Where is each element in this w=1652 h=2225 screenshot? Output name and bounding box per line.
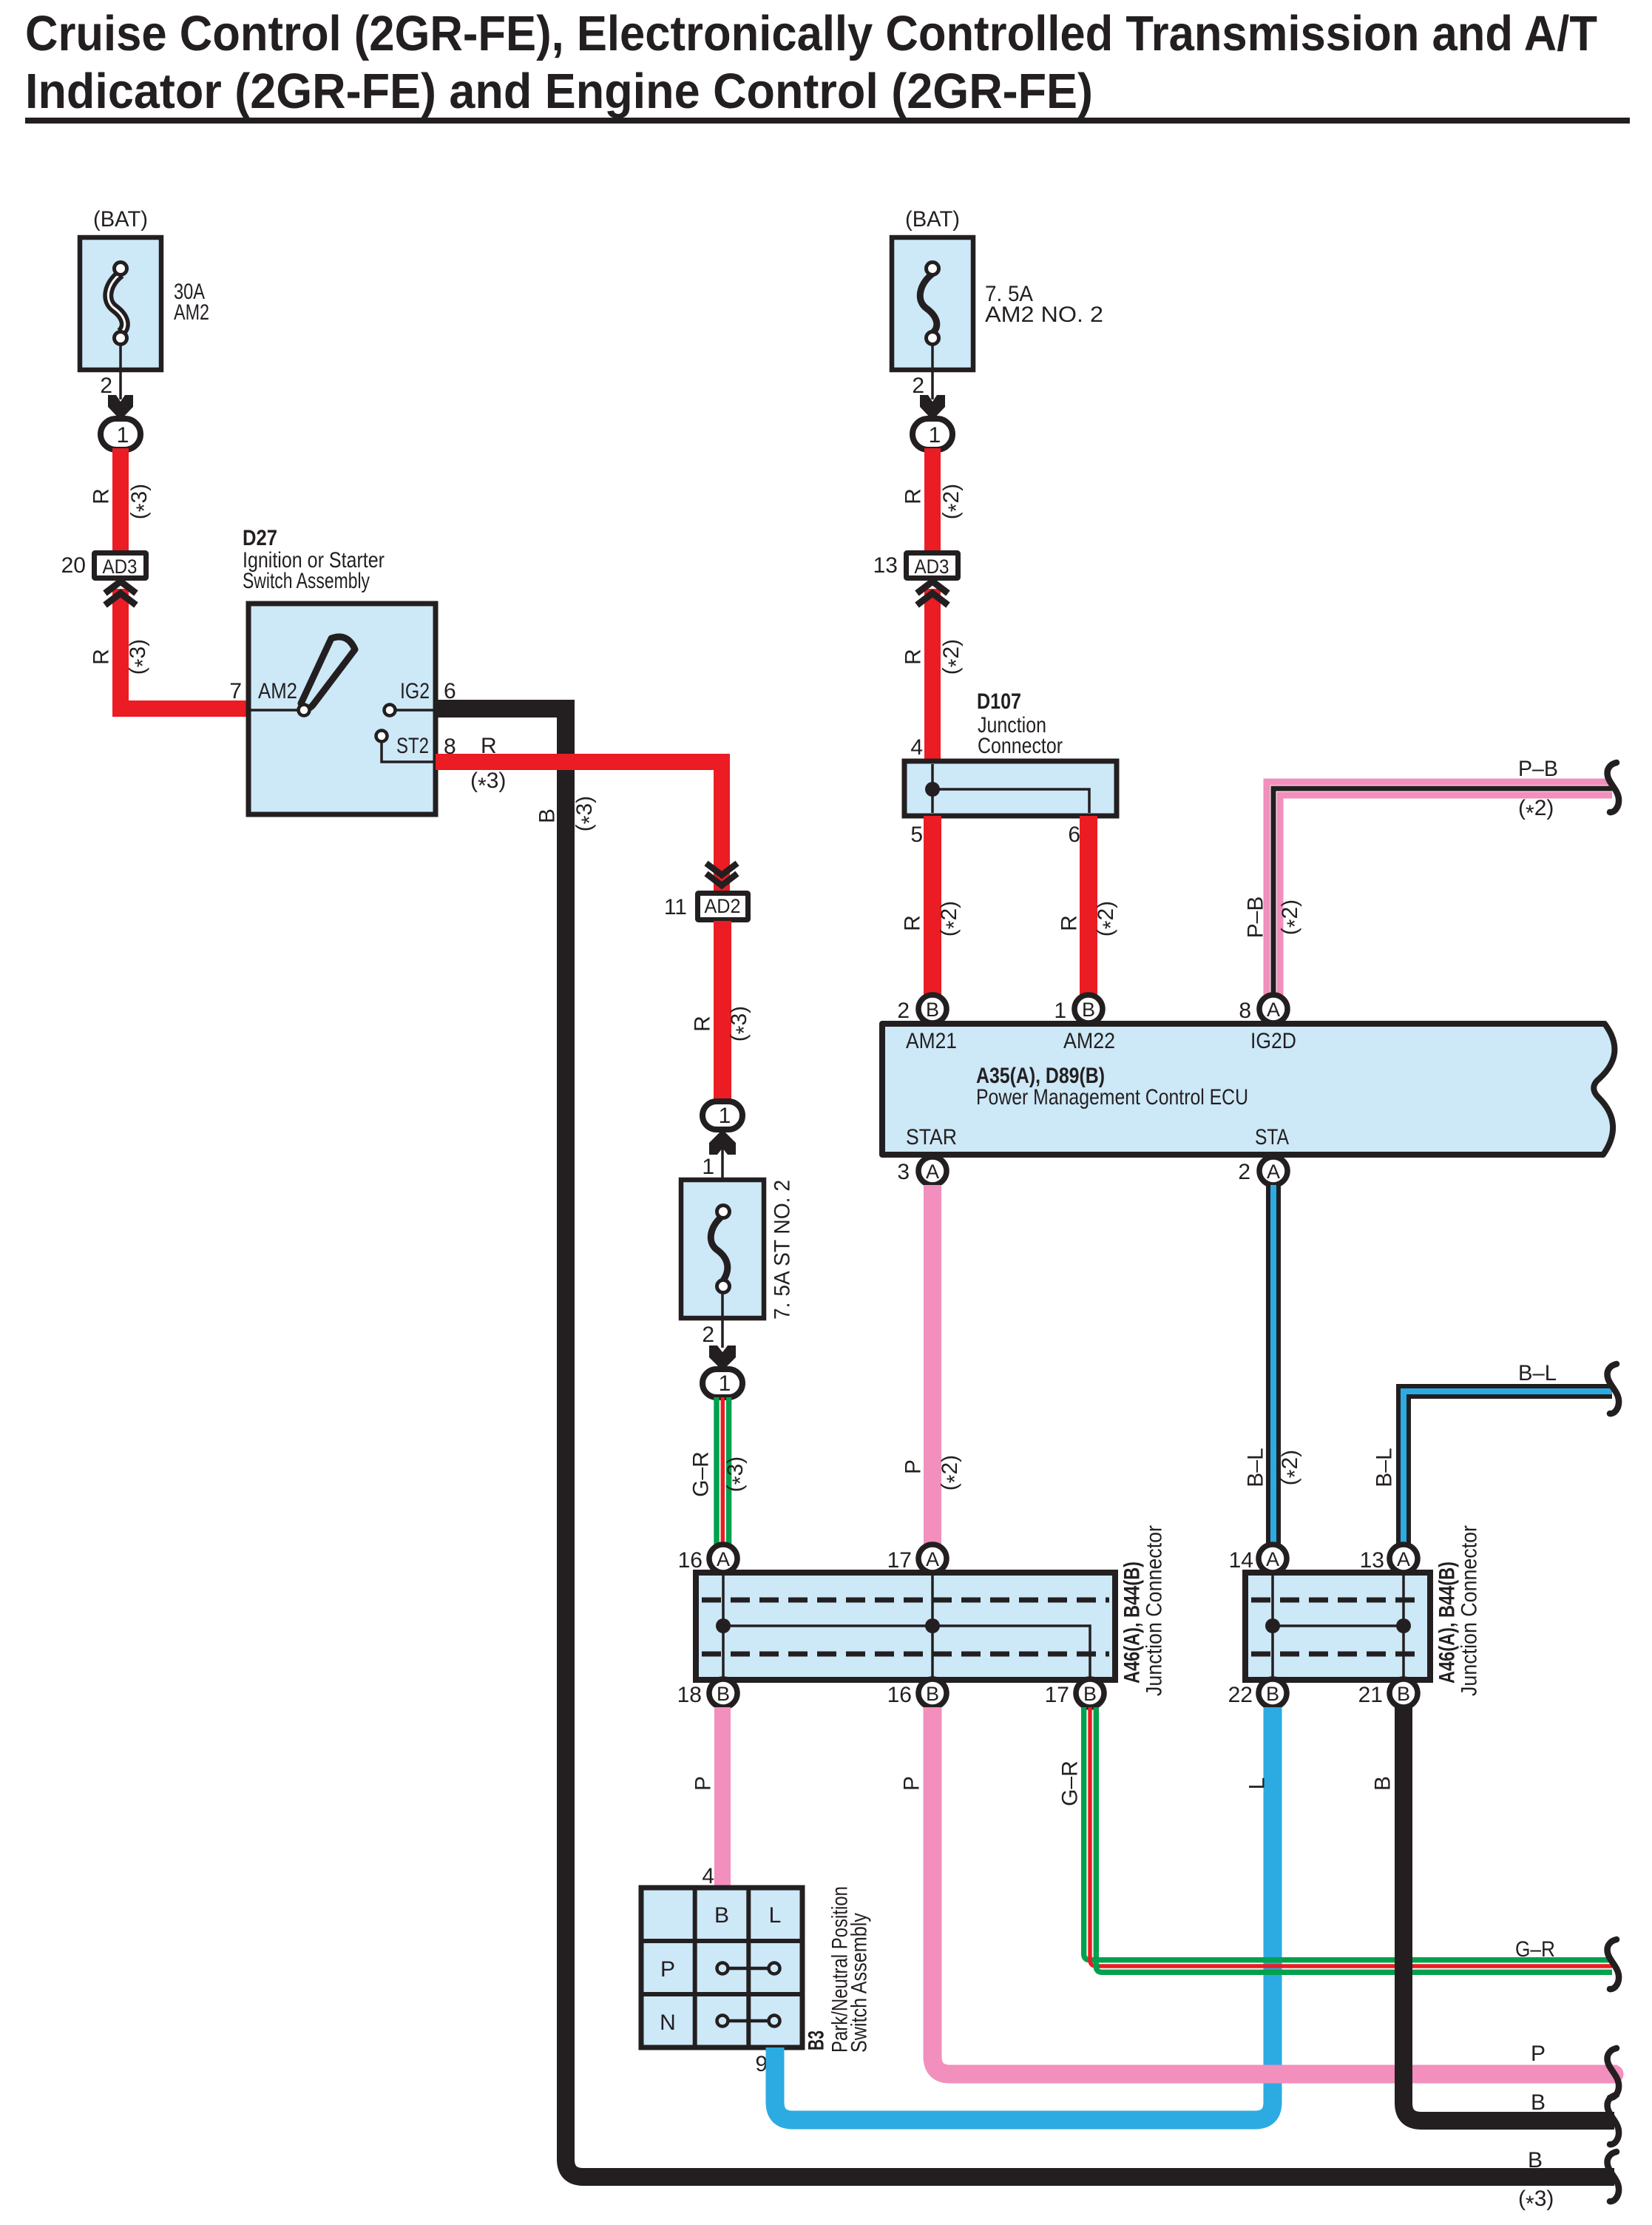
svg-text:7. 5A ST NO. 2: 7. 5A ST NO. 2 [771, 1180, 795, 1320]
double chevron below AD3 (left) [105, 581, 136, 605]
svg-text:(*2): (*2) [1278, 899, 1307, 935]
svg-text:17: 17 [887, 1548, 912, 1573]
connector oval 1 (left) [101, 419, 141, 450]
arrow up into oval [709, 1130, 736, 1155]
svg-text:D107: D107 [977, 689, 1021, 714]
svg-text:B: B [714, 1903, 729, 1928]
fuse 7.5A ST NO.2 [681, 1180, 764, 1318]
svg-text:2: 2 [702, 1323, 714, 1347]
svg-text:A: A [1397, 1548, 1410, 1570]
svg-text:(*3): (*3) [127, 484, 157, 519]
svg-text:AM22: AM22 [1063, 1029, 1115, 1053]
svg-text:18: 18 [677, 1683, 702, 1707]
svg-text:STAR: STAR [906, 1125, 957, 1149]
svg-text:G–R: G–R [1058, 1760, 1083, 1806]
svg-text:14: 14 [1229, 1548, 1253, 1573]
svg-text:G–R: G–R [1515, 1937, 1555, 1962]
wire lead into fuse ST NO.2 [721, 1143, 724, 1207]
pin 2 A circle (STA) [1238, 1157, 1287, 1185]
connector AD3 (left) [95, 553, 146, 578]
svg-text:B–L: B–L [1518, 1361, 1557, 1385]
pin 16 B circle [887, 1679, 947, 1707]
ECU A35(A) D89(B) Power Management Control ECU [882, 1024, 1614, 1155]
continuation brace B (bottom) [1608, 2152, 1619, 2201]
svg-text:(*3): (*3) [727, 1006, 756, 1041]
svg-text:L: L [769, 1903, 782, 1928]
svg-text:R: R [901, 649, 926, 665]
wire R (*2) AD3 to D107 pin 4 [924, 589, 941, 761]
svg-text:2: 2 [1238, 1160, 1250, 1184]
svg-text:22: 22 [1228, 1683, 1253, 1707]
pin 8 A circle (IG2D) [1239, 995, 1287, 1023]
svg-text:5: 5 [910, 823, 923, 847]
svg-text:A46(A), B44(B): A46(A), B44(B) [1435, 1561, 1460, 1684]
connector oval 1 (mid) [703, 1101, 742, 1130]
svg-text:B3: B3 [805, 2030, 829, 2050]
svg-text:B: B [1397, 1683, 1410, 1705]
wire B (*3) from IG2 to bottom right [436, 709, 1614, 2177]
pin 17 A circle [887, 1544, 947, 1573]
svg-text:R: R [901, 488, 926, 504]
svg-text:16: 16 [678, 1548, 703, 1573]
continuation brace B (21B) [1608, 2095, 1619, 2144]
wire R (*2) fuse F2 to AD3 [924, 448, 941, 552]
svg-text:A: A [926, 1161, 939, 1183]
pin 16 A circle [678, 1544, 737, 1573]
pin 21 B circle [1358, 1679, 1418, 1707]
svg-text:(*3): (*3) [470, 769, 506, 798]
svg-text:1: 1 [719, 1104, 731, 1128]
svg-text:(*2): (*2) [939, 639, 969, 675]
wire G-R (*3) oval to junction 16A [717, 1397, 729, 1546]
wire fuse F1 pin 2 lead [119, 344, 122, 399]
svg-text:(*2): (*2) [1278, 1450, 1307, 1485]
wire B-L junction 13A to right edge [1404, 1391, 1612, 1546]
svg-text:Junction Connector: Junction Connector [1142, 1525, 1167, 1696]
svg-text:1: 1 [719, 1371, 731, 1396]
svg-text:P–B: P–B [1244, 897, 1268, 939]
svg-text:B–L: B–L [1372, 1448, 1397, 1487]
svg-text:(BAT): (BAT) [905, 207, 960, 232]
connector AD2 [698, 894, 748, 920]
svg-text:B: B [535, 808, 560, 823]
svg-text:(*2): (*2) [939, 484, 969, 519]
svg-text:R: R [1057, 915, 1082, 931]
wire R (*3) AD3 to D27 AM2 [121, 589, 248, 709]
svg-text:A46(A), B44(B): A46(A), B44(B) [1120, 1561, 1145, 1684]
svg-text:A: A [1267, 999, 1280, 1021]
svg-text:Power Management Control ECU: Power Management Control ECU [976, 1085, 1248, 1110]
svg-text:R: R [901, 915, 925, 931]
arrow into connector 1 [108, 395, 133, 420]
svg-text:B: B [926, 999, 939, 1021]
svg-text:21: 21 [1358, 1683, 1383, 1707]
svg-text:(*2): (*2) [938, 1455, 967, 1490]
wire P junction 16B to right edge [932, 1707, 1617, 2074]
svg-text:B: B [1371, 1776, 1395, 1791]
wire G-R junction 17B to right edge [1084, 1707, 1612, 1972]
title underline [25, 118, 1630, 124]
svg-text:P–B: P–B [1518, 757, 1558, 781]
svg-text:A: A [717, 1548, 730, 1570]
svg-text:3: 3 [897, 1160, 910, 1184]
svg-text:P: P [901, 1459, 926, 1474]
wire fuse F2 pin 2 lead [931, 344, 934, 399]
svg-text:P: P [691, 1776, 716, 1791]
svg-text:B: B [1266, 1683, 1279, 1705]
svg-text:(*3): (*3) [572, 796, 602, 831]
svg-text:1: 1 [929, 423, 941, 448]
svg-text:AM2 NO. 2: AM2 NO. 2 [985, 303, 1103, 327]
svg-text:AD3: AD3 [103, 556, 138, 578]
svg-text:IG2D: IG2D [1250, 1029, 1296, 1053]
park/neutral position switch B3 [641, 1888, 802, 2047]
svg-text:11: 11 [664, 895, 687, 919]
svg-text:AM2: AM2 [174, 300, 209, 325]
svg-text:1: 1 [1054, 999, 1066, 1023]
fuse F1 30A AM2 [80, 237, 161, 370]
wire R (*2) D107 pin6 to ECU AM22 [1080, 816, 1097, 995]
svg-text:B: B [926, 1683, 939, 1705]
svg-text:D27: D27 [243, 526, 277, 550]
wire R (*3) AD2 to connector oval [714, 921, 731, 1102]
svg-text:IG2: IG2 [400, 679, 430, 703]
svg-text:A: A [926, 1548, 939, 1570]
svg-text:13: 13 [873, 553, 898, 578]
svg-text:Switch Assembly: Switch Assembly [243, 569, 370, 593]
wire P (*2) STAR to junction 17A [924, 1185, 941, 1546]
arrow into connector oval 2 [709, 1346, 736, 1371]
svg-text:4: 4 [910, 735, 923, 760]
svg-text:(*3): (*3) [126, 639, 155, 675]
wire lead below fuse ST NO.2 [721, 1292, 724, 1348]
svg-text:B–L: B–L [1244, 1448, 1268, 1487]
svg-text:G–R: G–R [689, 1451, 714, 1497]
wire B-L (*2) STA to junction 14A [1266, 1185, 1281, 1546]
svg-text:(*2): (*2) [1518, 796, 1554, 825]
connector oval 1 (right) [913, 419, 952, 450]
svg-text:ST2: ST2 [396, 734, 429, 758]
ignition switch D27 [248, 604, 436, 814]
pin 3 A circle (STAR) [897, 1157, 947, 1185]
svg-text:B: B [1528, 2148, 1543, 2172]
svg-text:P: P [900, 1776, 924, 1791]
svg-text:(*3): (*3) [723, 1456, 753, 1492]
pin 1 B circle (AM22) [1054, 995, 1103, 1023]
svg-text:R: R [89, 488, 114, 504]
svg-text:A: A [1266, 1548, 1279, 1570]
svg-text:AM21: AM21 [906, 1029, 957, 1053]
connector oval 1 (lower) [703, 1369, 742, 1397]
svg-text:(*2): (*2) [937, 901, 967, 936]
svg-text:(*3): (*3) [1518, 2187, 1554, 2216]
svg-text:(*2): (*2) [1094, 901, 1123, 936]
svg-text:9: 9 [755, 2052, 768, 2076]
junction connector A46(A),B44(B) right box [1245, 1573, 1430, 1680]
wire P-B (*2) from ECU IG2D to right edge [1273, 789, 1612, 995]
wire R (*2) D107 pin5 to ECU AM21 [924, 816, 941, 995]
continuation brace B-L [1608, 1364, 1619, 1414]
svg-text:AM2: AM2 [258, 679, 297, 703]
svg-text:P: P [1531, 2042, 1546, 2066]
svg-text:A: A [1267, 1161, 1280, 1183]
svg-text:B: B [1082, 999, 1095, 1021]
svg-text:AD3: AD3 [915, 556, 949, 578]
double chevron above AD2 [706, 863, 737, 885]
svg-text:(BAT): (BAT) [93, 207, 148, 232]
wire P rounded end [1605, 2065, 1624, 2084]
wire R (*3) fuse F1 to AD3 [112, 448, 129, 552]
continuation brace P-B [1608, 763, 1619, 812]
pin 18 B circle [677, 1679, 737, 1707]
pin 14 A circle [1229, 1544, 1287, 1573]
svg-text:2: 2 [912, 374, 924, 398]
svg-text:6: 6 [1068, 823, 1080, 847]
svg-text:Indicator (2GR-FE) and Engine: Indicator (2GR-FE) and Engine Control (2… [25, 64, 1093, 119]
pin 13 A circle [1360, 1544, 1418, 1573]
continuation brace P [1608, 2048, 1619, 2098]
svg-text:Cruise Control (2GR-FE), Elect: Cruise Control (2GR-FE), Electronically … [25, 6, 1597, 61]
svg-text:4: 4 [702, 1864, 714, 1888]
wire R (*3) from ST2 to AD2 [436, 762, 722, 891]
pin 2 B circle (AM21) [897, 995, 947, 1023]
svg-text:7: 7 [229, 679, 242, 703]
svg-text:2: 2 [100, 374, 112, 398]
svg-text:P: P [660, 1957, 675, 1982]
svg-text:AD2: AD2 [705, 895, 741, 917]
svg-text:1: 1 [117, 423, 129, 448]
fuse F2 7.5A AM2 NO.2 [892, 237, 973, 370]
svg-text:1: 1 [702, 1155, 714, 1179]
svg-text:Switch Assembly: Switch Assembly [847, 1913, 872, 2053]
svg-text:L: L [1245, 1777, 1270, 1790]
double chevron below AD3 (right) [917, 581, 948, 605]
continuation brace G-R [1608, 1939, 1619, 1989]
svg-text:13: 13 [1360, 1548, 1384, 1573]
svg-text:B: B [1531, 2090, 1546, 2115]
svg-text:Connector: Connector [978, 734, 1063, 758]
svg-text:B: B [1083, 1683, 1097, 1705]
svg-text:R: R [691, 1016, 715, 1032]
svg-text:Junction Connector: Junction Connector [1458, 1525, 1482, 1696]
wire B junction 21B to right edge [1404, 1707, 1614, 2121]
pin 22 B circle [1228, 1679, 1287, 1707]
svg-text:20: 20 [61, 553, 86, 578]
svg-text:2: 2 [897, 999, 910, 1023]
svg-text:17: 17 [1045, 1683, 1069, 1707]
connector AD3 (right) [907, 553, 958, 578]
wire P junction 18B to B3 pin 4 [714, 1707, 731, 1888]
pin 17 B circle [1045, 1679, 1104, 1707]
svg-text:N: N [660, 2010, 676, 2035]
svg-text:B: B [717, 1683, 730, 1705]
junction connector D107 [904, 761, 1117, 816]
svg-text:R: R [89, 649, 114, 665]
junction connector A46(A),B44(B) left box [696, 1573, 1115, 1680]
arrow into connector 1 (right) [920, 395, 945, 420]
wire L B3 pin 9 to junction 22B [775, 1707, 1273, 2120]
svg-text:STA: STA [1255, 1125, 1289, 1149]
svg-text:8: 8 [1239, 999, 1251, 1023]
svg-text:16: 16 [887, 1683, 912, 1707]
